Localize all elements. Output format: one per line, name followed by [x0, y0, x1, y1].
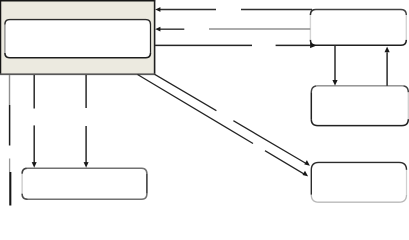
arrow E: down arrow from big box to bottom-left box (right) — [84, 75, 89, 168]
arrow J: up arrow from middle-right box to top-right box — [385, 47, 390, 86]
bottom-left rounded box — [22, 168, 147, 199]
arrow B: left-pointing arrow into big box, second (gray tail) — [155, 27, 310, 32]
arrow H: lower diagonal from big box bottom to bottom-right box — [138, 75, 309, 177]
arrow D: down arrow from big box to bottom-left box (left) — [32, 75, 37, 168]
arrow G: upper diagonal from big box corner to bottom-right box — [155, 74, 310, 166]
arrow I: down arrow from top-right box to middle-right box — [332, 45, 337, 85]
wire F: broken vertical line at far left below big box — [9, 75, 12, 206]
bottom-right rounded box — [311, 162, 406, 202]
middle-right rounded box — [311, 86, 408, 126]
inner white rounded box — [5, 20, 151, 58]
arrow A: left-pointing arrow into big box, top — [155, 7, 312, 12]
big container box top-left (beige fill) — [0, 0, 155, 75]
arrow C: right-pointing arrow from big box to top-right box bottom-left corner — [155, 43, 317, 48]
top-right rounded box — [310, 10, 406, 46]
